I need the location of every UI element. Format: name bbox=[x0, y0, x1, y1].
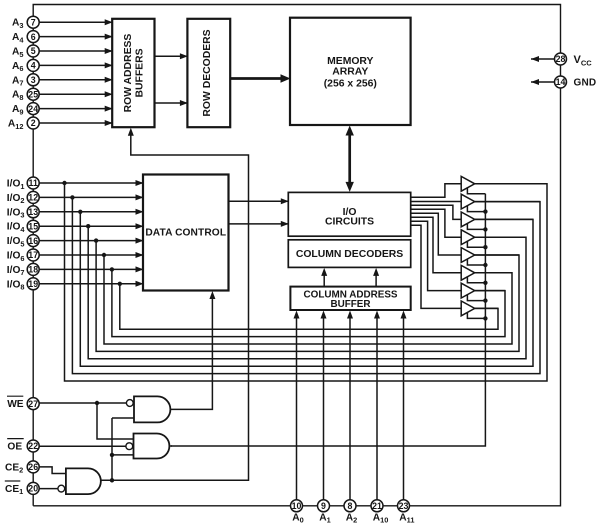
wire enable stub to tri8 bbox=[467, 312, 487, 321]
wire row decoders to memory array bbox=[230, 74, 290, 82]
wire column address buffer to column decoders (right) bbox=[373, 268, 379, 287]
wire A8 to row address buffers bbox=[39, 91, 112, 97]
buffer tri6 (output buffer I/O6) bbox=[461, 265, 475, 280]
svg-text:18: 18 bbox=[28, 265, 38, 275]
wire enable stub to tri6 bbox=[467, 276, 487, 285]
wire OE to gate G2 bbox=[39, 445, 126, 447]
wire tri5 output bbox=[475, 254, 519, 256]
pin 3 A7 bbox=[12, 74, 39, 88]
pin 20 CE1 bbox=[5, 481, 39, 496]
pin 21 A10 bbox=[371, 500, 388, 525]
wire i/o circuits to buffer tri5 input bbox=[411, 213, 462, 255]
pin 28 Vcc bbox=[555, 53, 593, 67]
wire i/o circuits to buffer tri1 input bbox=[411, 184, 462, 198]
pin 18 I/O7 bbox=[7, 263, 39, 277]
wire A6 to row address buffers bbox=[39, 62, 112, 68]
wire enable stub to tri4 bbox=[467, 241, 487, 250]
pin 16 I/O5 bbox=[7, 235, 39, 249]
wire I/O3 loop to output buffer bbox=[80, 212, 533, 366]
pin 14 GND bbox=[555, 76, 597, 89]
svg-text:22: 22 bbox=[28, 441, 38, 451]
wire CS to G1 input bbox=[112, 417, 134, 419]
wire I/O4 loop to output buffer bbox=[88, 226, 526, 359]
wire A11 to column address buffer bbox=[401, 311, 407, 500]
svg-text:11: 11 bbox=[29, 178, 38, 188]
wire i/o circuits to buffer tri2 input bbox=[411, 201, 462, 203]
svg-text:COLUMN DECODERS: COLUMN DECODERS bbox=[296, 249, 403, 260]
column address buffer U7 bbox=[290, 287, 410, 311]
svg-text:5: 5 bbox=[31, 46, 36, 56]
pin 25 A8 bbox=[12, 88, 39, 102]
wire I/O7 loop to output buffer bbox=[112, 269, 505, 336]
wire I/O2 to data control bbox=[39, 194, 143, 200]
wire I/O5 loop to output buffer bbox=[96, 241, 519, 352]
pin 2 A12 bbox=[8, 117, 39, 131]
wire i/o circuits to buffer tri3 input bbox=[411, 205, 462, 219]
i/o circuits U5 bbox=[288, 192, 410, 236]
wire A9 to row address buffers bbox=[39, 106, 112, 112]
wire I/O2 loop to output buffer bbox=[72, 197, 540, 373]
row decoders U2 bbox=[187, 19, 230, 127]
wire I/O6 loop to output buffer bbox=[104, 255, 512, 344]
wire enable stub to tri3 bbox=[467, 223, 487, 232]
svg-text:7: 7 bbox=[31, 17, 36, 27]
memory array U3 bbox=[290, 18, 411, 125]
wire data control to i/o circuits (upper) bbox=[229, 198, 289, 204]
svg-text:ROW DECODERS: ROW DECODERS bbox=[202, 29, 213, 116]
svg-text:MEMORY: MEMORY bbox=[327, 56, 373, 67]
wire tri7 output bbox=[475, 290, 505, 292]
svg-text:17: 17 bbox=[28, 250, 38, 260]
wire CS branch vertical bbox=[111, 418, 113, 480]
svg-text:2: 2 bbox=[31, 118, 36, 128]
pin 17 I/O6 bbox=[7, 249, 39, 263]
wire row address buffers to row decoders (upper) bbox=[155, 53, 188, 59]
wire I/O5 to data control bbox=[39, 238, 143, 244]
svg-text:8: 8 bbox=[348, 501, 353, 511]
pin 8 A2 bbox=[344, 500, 357, 525]
wire row address buffers to row decoders (lower) bbox=[155, 100, 188, 106]
pin 13 I/O3 bbox=[7, 206, 39, 220]
svg-text:24: 24 bbox=[28, 104, 38, 114]
wire tri2 output bbox=[475, 201, 540, 203]
wire enable stub to tri2 bbox=[467, 205, 487, 214]
pin 27 WE bbox=[7, 396, 39, 410]
buffer tri7 (output buffer I/O7) bbox=[461, 283, 475, 298]
wire I/O8 to data control bbox=[39, 281, 143, 287]
svg-text:19: 19 bbox=[28, 279, 38, 289]
buffer tri3 (output buffer I/O3) bbox=[461, 212, 475, 227]
wire I/O3 to data control bbox=[39, 209, 143, 215]
svg-text:OE: OE bbox=[7, 442, 22, 453]
wire WE branch to gate G2 bbox=[97, 403, 134, 439]
svg-text:3: 3 bbox=[31, 75, 36, 85]
pin 7 A3 bbox=[12, 16, 39, 30]
wire i/o circuits to buffer tri7 input bbox=[411, 221, 462, 290]
pin 6 A4 bbox=[12, 31, 39, 45]
svg-text:21: 21 bbox=[372, 501, 382, 511]
svg-text:16: 16 bbox=[28, 236, 38, 246]
gate G1 (WE & CS) bbox=[126, 396, 170, 422]
svg-text:9: 9 bbox=[321, 501, 326, 511]
wire WE to gate G1 bbox=[39, 401, 126, 405]
wire I/O1 loop to output buffer bbox=[65, 183, 548, 381]
pin 11 I/O1 bbox=[7, 177, 39, 191]
pin 23 A11 bbox=[398, 500, 415, 525]
svg-text:14: 14 bbox=[556, 77, 566, 87]
pin 9 A1 bbox=[318, 500, 331, 525]
wire G3 output (chip select) to row address buffers bbox=[101, 128, 249, 483]
wire memory array to i/o circuits (bidirectional) bbox=[346, 126, 354, 192]
svg-text:DATA CONTROL: DATA CONTROL bbox=[145, 228, 226, 239]
svg-text:ARRAY: ARRAY bbox=[332, 67, 368, 78]
svg-text:23: 23 bbox=[399, 501, 409, 511]
wire A4 to row address buffers bbox=[39, 34, 112, 40]
wire tri4 output bbox=[475, 236, 526, 238]
svg-text:12: 12 bbox=[28, 193, 38, 203]
pin 26 CE2 bbox=[5, 461, 39, 475]
svg-text:25: 25 bbox=[28, 89, 38, 99]
wire GND arrow bbox=[531, 79, 554, 85]
wire i/o circuits to buffer tri8 input bbox=[411, 225, 462, 308]
pin 19 I/O8 bbox=[7, 278, 39, 292]
wire A1 to column address buffer bbox=[321, 311, 327, 500]
wire I/O4 to data control bbox=[39, 223, 143, 229]
pin 4 A6 bbox=[12, 59, 39, 73]
svg-text:28: 28 bbox=[556, 54, 566, 64]
wire column address buffer to column decoders (left) bbox=[321, 268, 327, 287]
wire enable stub to tri5 bbox=[467, 259, 487, 268]
wire G1 output to data control bbox=[170, 291, 215, 409]
wire tri6 output bbox=[475, 272, 512, 274]
svg-text:4: 4 bbox=[31, 61, 36, 71]
wire data control to i/o circuits (lower) bbox=[229, 221, 289, 227]
pin 5 A5 bbox=[12, 45, 39, 59]
wire A0 to column address buffer bbox=[294, 311, 300, 500]
column decoders U6 bbox=[288, 240, 410, 268]
svg-text:15: 15 bbox=[28, 221, 38, 231]
buffer tri8 (output buffer I/O8) bbox=[461, 301, 475, 316]
wire A5 to row address buffers bbox=[39, 48, 112, 54]
wire enable stub to tri7 bbox=[467, 294, 487, 303]
pin 15 I/O4 bbox=[7, 220, 39, 234]
svg-text:27: 27 bbox=[28, 399, 38, 409]
wire CS to G2 input bbox=[110, 453, 134, 457]
data control U4 bbox=[143, 175, 229, 291]
wire tri1 output bbox=[475, 183, 547, 185]
svg-text:BUFFER: BUFFER bbox=[330, 299, 370, 310]
wire tri8 output bbox=[475, 307, 498, 309]
gate G3 (CE2 & CE1 chip select) bbox=[58, 468, 101, 494]
wire CE1 to gate G3 bubble bbox=[39, 488, 57, 490]
pin 10 A0 bbox=[291, 500, 304, 525]
wire i/o circuits to buffer tri6 input bbox=[411, 217, 462, 272]
wire A12 to row address buffers bbox=[39, 120, 112, 126]
buffer tri1 (output buffer I/O1) bbox=[461, 176, 475, 191]
svg-text:10: 10 bbox=[292, 501, 302, 511]
wire G2 output to enable bus bbox=[170, 445, 172, 447]
row address buffers U1 bbox=[112, 19, 154, 127]
wire enable stub to tri1 bbox=[467, 187, 485, 193]
svg-text:26: 26 bbox=[28, 462, 38, 472]
svg-text:13: 13 bbox=[28, 207, 38, 217]
wire A3 to row address buffers bbox=[39, 19, 112, 25]
buffer tri5 (output buffer I/O5) bbox=[461, 248, 475, 263]
wire output-enable bus bbox=[171, 194, 486, 446]
svg-text:20: 20 bbox=[28, 484, 38, 494]
svg-text:WE: WE bbox=[7, 399, 24, 410]
wire A2 to column address buffer bbox=[347, 311, 353, 500]
wire Vcc arrow bbox=[531, 56, 554, 62]
pin 12 I/O2 bbox=[7, 191, 39, 205]
wire I/O7 to data control bbox=[39, 266, 143, 272]
wire I/O6 to data control bbox=[39, 252, 143, 258]
wire CE2 to gate G3 bbox=[39, 467, 66, 474]
pin 24 A9 bbox=[12, 103, 39, 117]
svg-text:(256 x 256): (256 x 256) bbox=[324, 79, 377, 90]
wire i/o circuits to buffer tri4 input bbox=[411, 209, 462, 237]
svg-text:GND: GND bbox=[574, 78, 597, 89]
svg-text:6: 6 bbox=[31, 32, 36, 42]
pin 22 OE bbox=[7, 439, 39, 453]
buffer tri4 (output buffer I/O4) bbox=[461, 230, 475, 245]
gate G2 (WE & OE & CS output enable) bbox=[126, 434, 169, 459]
wire I/O8 loop to output buffer bbox=[120, 284, 498, 329]
wire A7 to row address buffers bbox=[39, 77, 112, 83]
buffer tri2 (output buffer I/O2) bbox=[461, 194, 475, 209]
wire A10 to column address buffer bbox=[374, 311, 380, 500]
wire tri3 output bbox=[475, 218, 533, 220]
wire I/O1 to data control bbox=[39, 180, 143, 186]
svg-text:CIRCUITS: CIRCUITS bbox=[325, 217, 374, 228]
